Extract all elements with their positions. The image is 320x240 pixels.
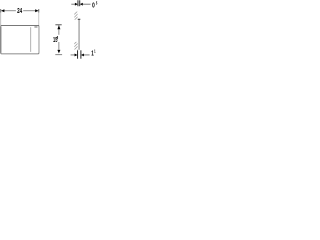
top tick [55, 24, 61, 26]
top dim leader left [71, 3, 75, 5]
svg-text:24: 24 [17, 7, 22, 15]
plate top cap [78, 18, 81, 20]
button seam line [30, 27, 32, 52]
plate left edge accent [0, 27, 2, 53]
bottom dim arrow left-pointing [81, 54, 84, 57]
top dim arrow left-pointing [80, 3, 83, 6]
label 24 [17, 7, 22, 15]
dimension arrow left [1, 9, 4, 12]
top dim bar 2 [79, 0, 81, 6]
geberit logo dash [34, 26, 37, 29]
plate/wall face line [78, 20, 80, 50]
vertical dim arrow up [57, 25, 60, 29]
vertical dim arrow down [57, 50, 60, 54]
svg-text:8: 8 [57, 35, 58, 40]
svg-text:5: 5 [96, 1, 97, 6]
label 1 [91, 51, 94, 58]
label 1 superscript 1 [94, 49, 95, 54]
plate right edge light accent [38, 27, 40, 53]
label 15 [53, 37, 58, 44]
label 0 [92, 1, 95, 9]
top dim arrow right-pointing [75, 3, 78, 6]
plate outline [1, 25, 39, 53]
bottom dim bar 1 [77, 50, 79, 58]
extension line right (dark upper part) [38, 9, 40, 13]
label 15 superscript 8 [57, 35, 58, 40]
wall hatch lines [74, 11, 78, 53]
svg-text:1: 1 [94, 49, 95, 54]
top dim bar 1 [77, 0, 79, 6]
extension line left (light lower part) [0, 13, 2, 26]
vertical dim line lower [58, 42, 60, 50]
bottom dim arrow right-pointing [75, 54, 78, 57]
top dim leader right [83, 3, 91, 5]
svg-text:0: 0 [92, 1, 95, 9]
bottom floor line [55, 54, 62, 56]
label 0 superscript 5 [96, 1, 97, 6]
bottom dim bar 2 [80, 50, 82, 58]
extension line left (dark upper part) [0, 9, 2, 13]
bottom dim leader right [84, 54, 90, 56]
bottom dim leader left [71, 54, 75, 56]
dimension line 24 left segment [1, 10, 16, 12]
dimension arrow right [35, 9, 38, 12]
vertical dim line upper [58, 25, 60, 35]
dimension line 24 right segment [23, 10, 38, 12]
extension line right (light lower part) [38, 13, 40, 26]
